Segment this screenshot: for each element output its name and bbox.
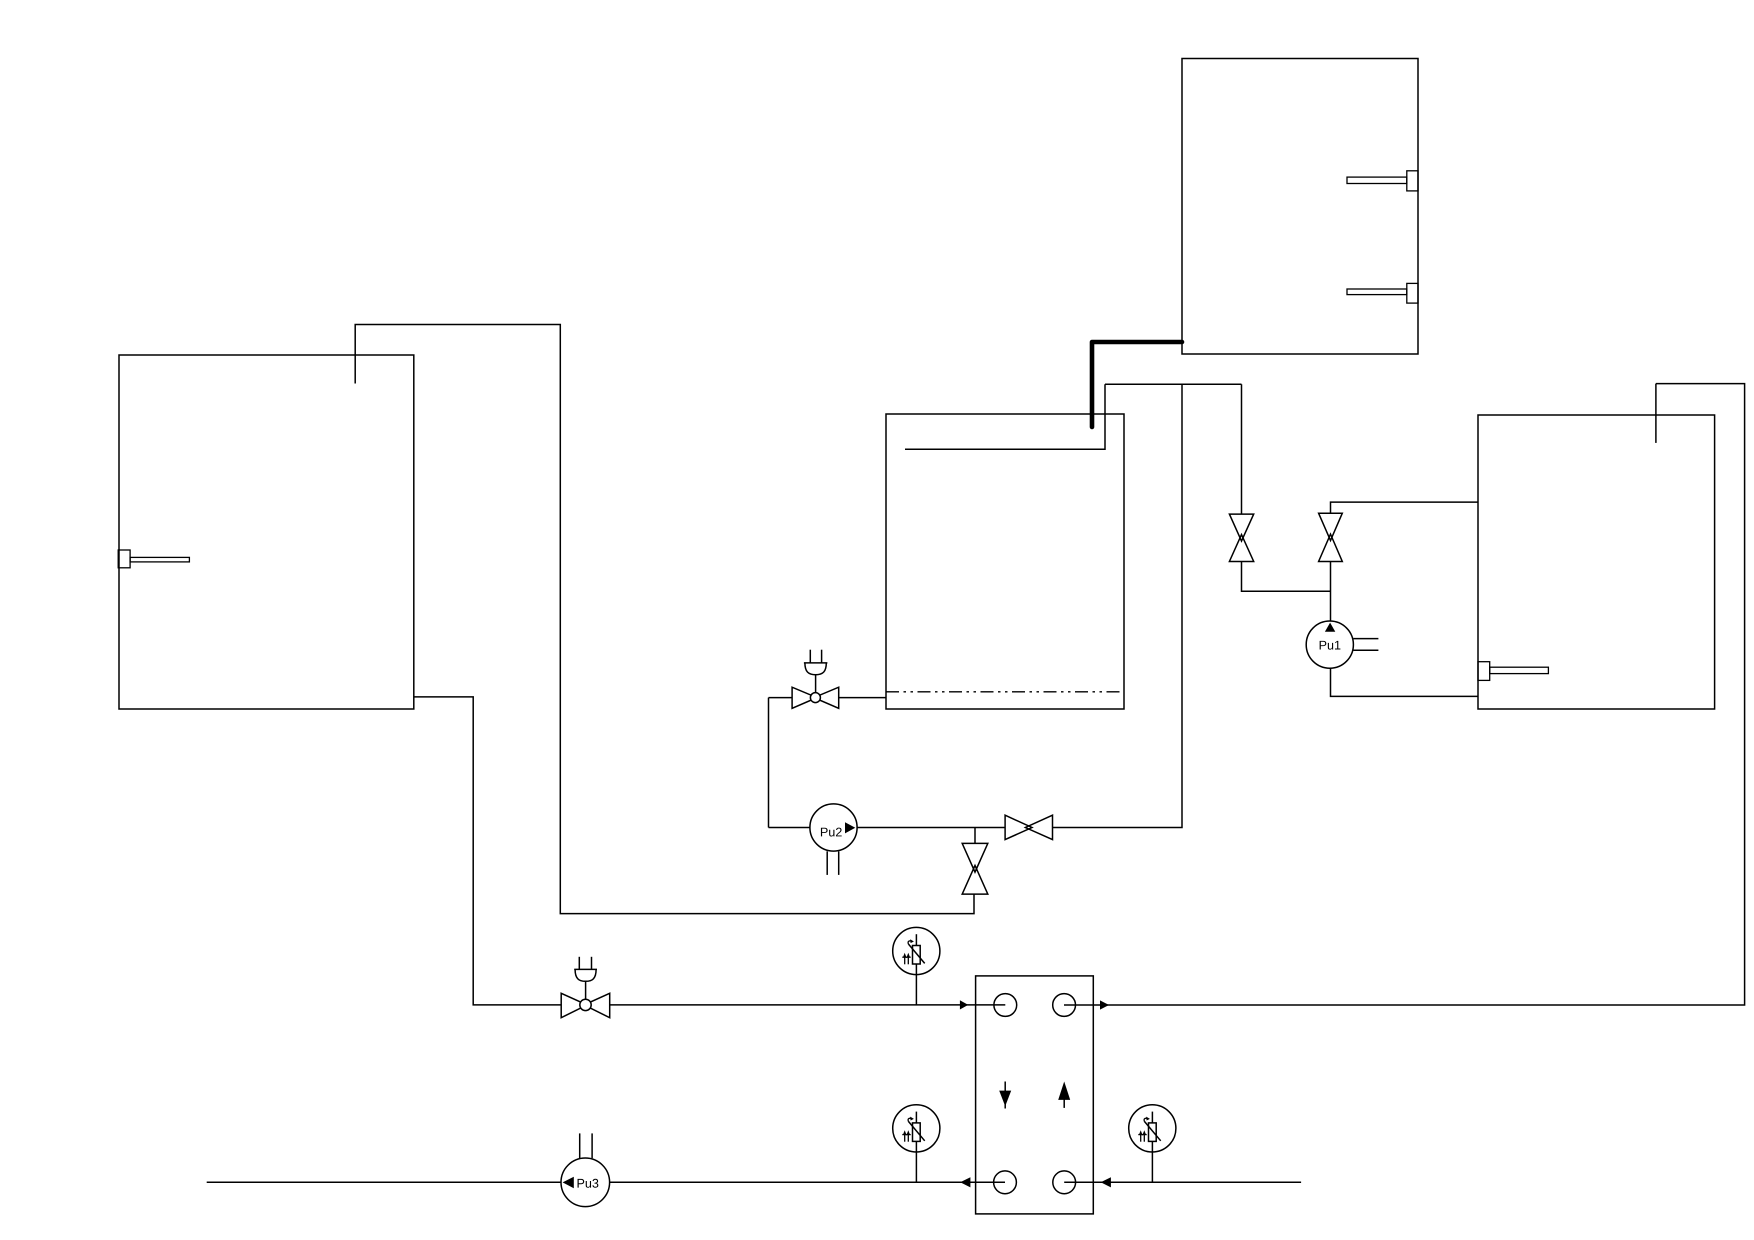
pipe: T2 outlet to MV2 and HX inlet [414, 697, 561, 1005]
pipe: V2 top to T4 [1331, 502, 1479, 513]
pipe: MV1 left leg down to Pu2 suction line [768, 698, 770, 828]
thick filling pipe [1092, 342, 1182, 427]
arrow out of HX top right [1100, 1000, 1109, 1009]
T2 nozzle [118, 550, 189, 568]
sensor S2 [893, 1105, 940, 1183]
sensor S1 [893, 927, 940, 1005]
pipe: riser to V1 [1241, 384, 1243, 514]
arrow into HX bottom right [1101, 1177, 1111, 1187]
valve V2 [1319, 513, 1343, 561]
T1 nozzle lower [1347, 283, 1418, 303]
tank T4 right [1478, 415, 1715, 709]
pump Pu1 [1306, 621, 1378, 668]
pipe: Pu1 bottom to T4 [1331, 668, 1479, 696]
pipe: V1 bottom elbow to V2 line [1242, 562, 1331, 592]
pipe: Pu2 discharge line to riser [769, 827, 1006, 829]
valve V4 [1005, 815, 1052, 839]
pipe: top header y=384 [1105, 383, 1242, 385]
motor valve MV2 [561, 957, 610, 1018]
pipe: T4 dip tube [1655, 384, 1657, 443]
pipe: bottom right inlet line [1064, 1181, 1301, 1183]
pipe: bottom return line through Pu3 [207, 1181, 1005, 1183]
pipe: T4 top header [1064, 384, 1745, 1005]
pump Pu2 [810, 804, 857, 875]
motor valve MV1 [792, 650, 839, 709]
pipe: V3 stem to Pu2 line [974, 828, 976, 844]
valve V3 [962, 843, 988, 894]
tank T2 left [119, 355, 414, 709]
T3 liquid level line [886, 691, 1124, 693]
pipe: V2 bottom to Pu1 [1330, 562, 1332, 622]
arrow into HX top left [960, 1000, 968, 1009]
tank T3 middle [886, 414, 1124, 709]
HX internal down arrow [999, 1082, 1011, 1109]
heat exchanger HX [976, 976, 1094, 1214]
HX internal up arrow [1058, 1082, 1070, 1108]
T1 nozzle upper [1347, 171, 1418, 191]
tank T1 top right [1182, 59, 1418, 355]
T4 nozzle [1478, 662, 1548, 681]
valve V1 [1229, 514, 1253, 561]
pump Pu3 [561, 1133, 610, 1206]
arrow out of HX bottom left [960, 1177, 970, 1187]
sensor S3 [1129, 1105, 1176, 1183]
pipe: T2 dip tube to down-comer [355, 325, 974, 914]
pipe: T3 internal inlet dip [905, 384, 1105, 449]
pipe: MV1 body line [769, 697, 793, 699]
